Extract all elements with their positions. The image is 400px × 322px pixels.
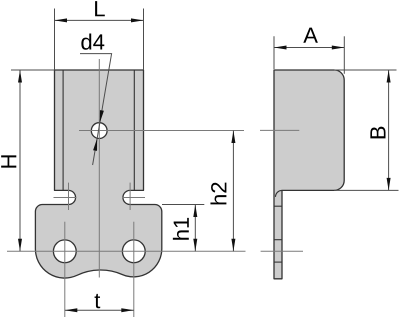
- dimension H arrow bottom: [18, 239, 22, 252]
- centerline right chain hole: [133, 222, 135, 317]
- side view chain hole centerline: [261, 250, 303, 252]
- dimension L extension right: [143, 9, 145, 71]
- leader arrow upper: [100, 110, 104, 123]
- label h2: [210, 183, 226, 205]
- horizontal centerline through hole d4: [79, 130, 244, 132]
- dimension h2 arrow bottom: [231, 239, 235, 252]
- label t: [95, 294, 101, 308]
- tick line hole bottom edge: [274, 261, 282, 263]
- bend line left of attachment plate: [62, 70, 64, 190]
- dimension L line: [55, 19, 144, 21]
- dimension t line: [65, 309, 134, 311]
- dimension L arrow left: [55, 18, 68, 22]
- left chain hole: [53, 240, 76, 263]
- dimension B extension bottom: [334, 189, 399, 191]
- dimension t arrow left: [65, 308, 78, 312]
- centerline vertical left slot: [68, 183, 70, 210]
- label A: [303, 28, 318, 43]
- label d4: [81, 34, 104, 50]
- dimension h2 arrow top: [231, 131, 235, 144]
- dimension B line: [388, 70, 390, 190]
- horizontal centerline through chain holes: [7, 250, 246, 252]
- bend fillet of side view: [276, 190, 283, 197]
- leader line d4: [80, 54, 112, 165]
- dimension h1 arrow bottom: [193, 239, 197, 252]
- centerline horizontal left slot: [54, 197, 77, 199]
- dimension A extension right: [343, 36, 345, 74]
- dimension A extension left: [273, 36, 275, 69]
- dimension A line: [274, 47, 344, 49]
- centerline vertical right slot: [129, 183, 131, 210]
- dimension H extension top: [11, 69, 55, 71]
- side view: plate with bent tab silhouette: [274, 70, 344, 279]
- dimension H arrow top: [18, 70, 22, 83]
- dimension L arrow right: [131, 18, 144, 22]
- hole d4: [91, 123, 107, 139]
- centerline left chain hole: [64, 222, 66, 317]
- label B: [370, 127, 385, 139]
- leader arrow lower: [93, 138, 97, 151]
- vertical centerline of part: [98, 59, 100, 278]
- dimension h1 extension top: [162, 204, 204, 206]
- dimension t arrow right: [121, 308, 134, 312]
- label H: [1, 155, 16, 167]
- dimension A arrow left: [274, 46, 287, 50]
- right chain hole: [122, 240, 145, 263]
- dimension h1 arrow top: [193, 205, 197, 218]
- tick line top of link plate edge: [274, 205, 282, 207]
- dimension H line: [19, 70, 21, 251]
- label h1: [173, 218, 189, 240]
- dimension h2 line: [232, 131, 234, 252]
- dimension L extension left: [54, 9, 56, 71]
- dimension B arrow top: [387, 70, 391, 83]
- side view hole centerline horizontal: [260, 129, 299, 131]
- bend line right of attachment plate: [133, 70, 135, 190]
- front view: combined silhouette of attachment plate and link plate: [35, 70, 161, 278]
- centerline horizontal right slot: [122, 197, 145, 199]
- dimension h1 line: [194, 205, 196, 252]
- dimension B extension top: [334, 69, 397, 71]
- tick line hole top edge: [274, 239, 282, 241]
- label L: [95, 1, 105, 16]
- dimension B arrow bottom: [387, 178, 391, 191]
- dimension A arrow right: [332, 46, 345, 50]
